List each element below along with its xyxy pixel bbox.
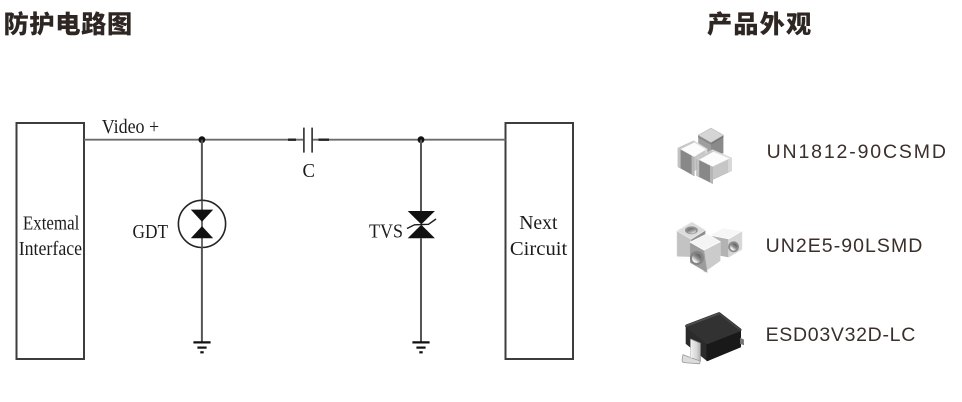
svg-text:Extemal: Extemal: [23, 213, 80, 235]
TVS bidirectional diode: [407, 211, 436, 238]
GDT gas discharge tube: [178, 200, 225, 247]
wire: TVS stem lower: [420, 238, 422, 342]
svg-text:Video +: Video +: [102, 116, 160, 138]
product photo: UN1812-90CSMD chip array: [678, 128, 732, 184]
wire: top rail left segment: [84, 139, 303, 141]
ground (GDT): [193, 342, 210, 352]
svg-text:C: C: [303, 160, 316, 182]
node: junction at GDT branch: [199, 136, 206, 143]
product photo: UN2E5-90LSMD gas tube blocks: [677, 222, 742, 273]
wire: dark stub left of capacitor: [288, 138, 296, 140]
svg-text:Next: Next: [519, 212, 558, 234]
svg-text:GDT: GDT: [133, 221, 169, 243]
svg-text:Circuit: Circuit: [510, 238, 568, 260]
wire: dark stub right of capacitor: [319, 138, 330, 140]
next circuit box: [506, 123, 574, 359]
wire: TVS stem upper: [420, 140, 422, 212]
capacitor C plates: [304, 128, 312, 153]
label: ESD03V32D-LC: [766, 326, 916, 346]
svg-text:Interface: Interface: [19, 238, 83, 260]
heading text: 产品外观 (as paths): [707, 11, 810, 36]
wire: GDT stem upper: [201, 140, 203, 201]
external interface box: [17, 123, 85, 359]
node: junction at TVS branch: [418, 136, 425, 143]
product photo: ESD03V32D-LC sod package: [682, 314, 744, 364]
heading text: 防护电路图 (as paths): [5, 11, 130, 35]
ground (TVS): [412, 342, 429, 352]
label: UN2E5-90LSMD: [766, 237, 924, 257]
wire: GDT stem lower: [201, 248, 203, 343]
svg-text:TVS: TVS: [369, 220, 403, 242]
label: UN1812-90CSMD: [767, 143, 948, 163]
wire: top rail right segment: [313, 139, 506, 141]
